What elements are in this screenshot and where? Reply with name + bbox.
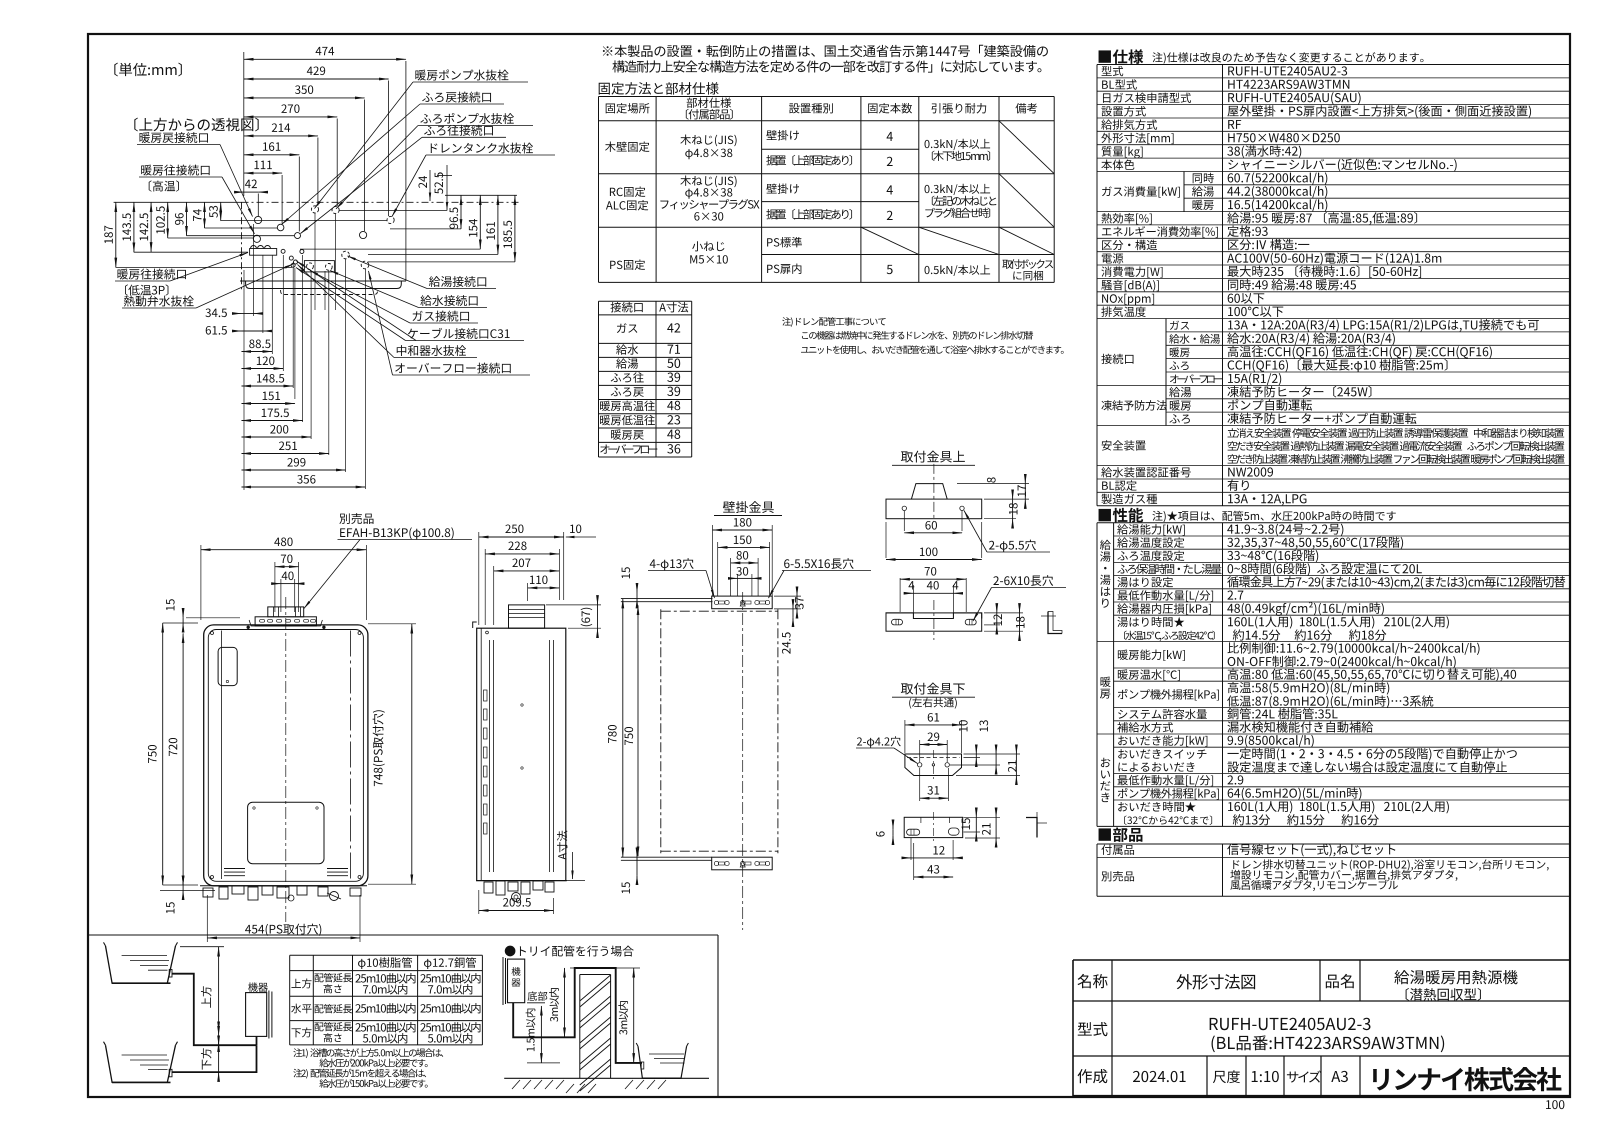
fitting-bottom profile icon: [1026, 818, 1037, 838]
company name: [1373, 1067, 1561, 1091]
side view top hook: [473, 622, 477, 628]
fitting-top slot label: [993, 575, 1053, 586]
bracket layout dim 15 top: [636, 585, 638, 593]
torii bathtub: [638, 1046, 687, 1078]
side view dims top: [479, 536, 564, 538]
front view dim 750: [162, 623, 164, 885]
A-dim table grid: [598, 301, 600, 457]
front view flue label: [339, 513, 373, 524]
fitting-top dim 8 17 18: [1024, 476, 1026, 484]
side view dots: [521, 704, 523, 706]
front view top bracket plate: [255, 617, 316, 626]
top view: top dimension stack: [244, 58, 406, 60]
drain piping note: [782, 317, 885, 327]
fixing table title: [599, 82, 719, 95]
front view center line: [285, 597, 287, 922]
fitting-bottom dims right 10 13 21: [959, 720, 968, 731]
side view wall slots: [484, 690, 488, 701]
title block texts: [1077, 974, 1107, 988]
parts table grid: [1096, 844, 1098, 896]
performance group labels vertical: [1100, 540, 1111, 550]
bracket layout unit outline dash-dot: [660, 609, 662, 854]
port label: gas: [413, 311, 469, 322]
spec table labels: [1102, 66, 1124, 76]
front view dim 480: [201, 549, 367, 551]
3P connector block: [250, 249, 277, 256]
performance table grid: [1096, 523, 1098, 827]
fitting-bottom dim 43: [914, 876, 953, 878]
title block grid: [1072, 960, 1074, 1096]
port label: furo pump drain: [420, 113, 514, 124]
torii dims: [540, 1006, 542, 1063]
top view port leader lines (left): [116, 266, 292, 268]
fitting-top dims 12 18 right: [996, 605, 998, 613]
performance header: [1099, 508, 1144, 523]
port label: furo-iki: [424, 125, 493, 136]
performance labels: [1117, 524, 1185, 535]
top view body outline dashed: [242, 201, 521, 203]
top view connection ports: [255, 216, 262, 223]
piping notes: [293, 1048, 443, 1058]
top view right dimension group: [437, 175, 452, 177]
fixing table header texts: [606, 103, 650, 113]
piping lines lower: [172, 1045, 257, 1072]
port label: kyusui: [420, 295, 477, 306]
fitting-bottom plan view: [904, 817, 963, 837]
front view bolts: [247, 626, 250, 629]
torii wall column hatched: [579, 975, 581, 1079]
fitting-bottom hole label: [857, 736, 901, 747]
fitting-bottom dim 12: [903, 857, 911, 859]
side view flue: [509, 605, 545, 628]
front view flue stub: [268, 607, 304, 617]
front view door rect: [218, 647, 237, 685]
port label: danbou-modori: [139, 132, 207, 143]
port label: drain tank drain: [431, 143, 533, 154]
bracket layout dim 15 bottom: [636, 849, 638, 857]
parts table texts: [1101, 845, 1134, 855]
wall bracket dim 37: [796, 588, 798, 596]
bracket bottom strip: [712, 857, 773, 870]
fitting-top plan view: [886, 613, 982, 619]
fitting-top dim 100: [886, 559, 982, 561]
port label: danbou-iki high: [141, 165, 209, 176]
fixing table diagonals: [999, 121, 1054, 174]
fitting-bottom dim 6: [892, 822, 894, 829]
bracket layout dim 750: [637, 605, 639, 856]
lower bathtub: [106, 1045, 176, 1082]
fitting-bottom title: [901, 683, 965, 695]
installation note line1: [603, 45, 1048, 57]
port label: danbou pump drain: [415, 69, 508, 80]
fitting-bottom shape: [905, 754, 962, 776]
spec table values: [1228, 66, 1347, 75]
port label: furo-modori: [422, 92, 491, 103]
torii ground line: [504, 1077, 709, 1079]
port label: kyuto: [429, 276, 486, 287]
sheet number: [1546, 1100, 1564, 1109]
A-dim table texts: [611, 302, 643, 312]
lower port block: [304, 261, 334, 272]
bracket layout top line: [621, 598, 713, 600]
fitting-bottom dim 61: [905, 724, 962, 726]
front view bottom pipe stubs: [203, 888, 213, 897]
top view lower outline: [240, 280, 406, 282]
piping lines upper: [172, 974, 257, 1045]
side view bottom stubs: [484, 882, 493, 893]
fitting-top title: [901, 451, 965, 463]
front view vents: [224, 868, 245, 870]
front view dim 15 bottom: [182, 876, 184, 885]
port label: danbou-iki low3P: [117, 269, 185, 280]
wall bracket dim 24.5: [792, 601, 794, 609]
piping length table grid: [289, 955, 291, 1045]
front view lower panel: [248, 802, 324, 864]
side view dim 67: [597, 596, 599, 605]
fitting-top hole label: [989, 540, 1036, 552]
front view body: [204, 625, 368, 886]
torii piping route: [513, 968, 642, 1063]
top view vertical extension lines to bottom dims: [243, 270, 245, 490]
port label: neutralizer drain: [397, 345, 466, 356]
wall bracket dims: [713, 529, 773, 531]
spec table grid: [1096, 65, 1098, 506]
fixing method table grid: [598, 97, 600, 283]
side view body: [477, 628, 566, 880]
wall bracket strip: [712, 596, 773, 609]
torii bottom label: [528, 991, 548, 1000]
fitting-bottom dim 29: [920, 744, 948, 746]
front view dim 70: [275, 566, 299, 568]
parts header: [1099, 827, 1143, 841]
front view dim 40: [272, 583, 281, 585]
fixing table row: PS: [610, 260, 645, 270]
port label: netsudouben: [124, 296, 194, 307]
bottom section divider lines: [88, 934, 718, 936]
side view A-dim label: [557, 831, 567, 860]
fitting-top dim 60: [904, 532, 962, 534]
bracket layout dim 780: [622, 599, 624, 858]
bracket layout center line: [742, 592, 744, 930]
piping table texts: [358, 957, 412, 969]
fitting-bottom dim 31: [920, 797, 949, 799]
front view dim 454: [207, 937, 360, 939]
top view bottom dimension stack: [233, 313, 242, 315]
port label: cable C31: [408, 328, 510, 339]
piping dim vertical: [218, 947, 220, 1032]
spec safety row values: [1228, 428, 1565, 438]
torii machine box: [502, 957, 504, 1005]
upper bathtub: [106, 946, 176, 983]
installation note line2: [612, 60, 1041, 72]
fitting-top front view: [886, 499, 982, 519]
fixing table row: RC/ALC: [610, 187, 645, 197]
side view dim 209.5: [479, 910, 554, 912]
top view extension lines: [405, 61, 407, 281]
front view dim 15 top: [182, 609, 184, 618]
fitting-top slots: [892, 619, 903, 625]
performance values: [1227, 524, 1343, 536]
fixing table row: wood wall: [605, 142, 649, 152]
wall bracket hole labels: [650, 558, 694, 570]
port label: overflow: [395, 363, 510, 374]
front view corner screws: [211, 632, 214, 635]
spec header: [1099, 49, 1144, 64]
front view dim 720: [182, 633, 184, 885]
fitting-top dims 4 40 4: [909, 581, 915, 589]
fitting-bottom dims 15 21 right: [962, 818, 971, 829]
piping machine box: [246, 993, 267, 1037]
wall bracket title: [723, 501, 774, 513]
view title: [134, 118, 258, 132]
fitting-top dim 70: [900, 578, 966, 580]
torii piping title: [505, 946, 634, 957]
unit note: [114, 63, 182, 77]
front view dim 748: [411, 624, 413, 884]
fitting-top profile icon: [1048, 612, 1062, 634]
top view left dimension group: [114, 201, 242, 203]
